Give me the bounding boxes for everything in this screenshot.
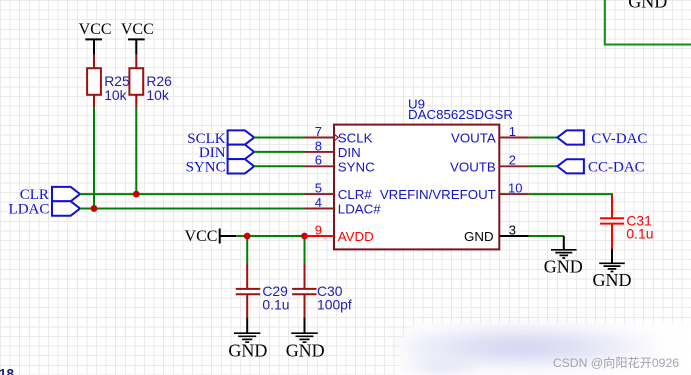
wire C30 branch	[304, 236, 306, 264]
svg-text:GND: GND	[628, 0, 667, 11]
svg-text:7: 7	[315, 124, 322, 139]
label R26 10k	[146, 73, 172, 103]
pin 9 AVDD (red)	[305, 235, 335, 237]
port DIN	[199, 145, 254, 162]
green sheet boundary (top right)	[605, 0, 691, 45]
svg-text:GND: GND	[228, 341, 267, 361]
ground GND (under C30)	[286, 317, 325, 360]
port CC-DAC	[557, 159, 644, 175]
svg-text:GND: GND	[464, 229, 494, 244]
wire VOUTA to CV-DAC	[529, 137, 558, 139]
svg-text:8: 8	[315, 138, 322, 153]
svg-text:18: 18	[0, 367, 15, 375]
svg-text:SCLK: SCLK	[338, 131, 373, 146]
label C31 0.1u	[626, 213, 653, 242]
pin 7 SCLK	[305, 137, 335, 139]
capacitor C31 (red)	[600, 195, 624, 249]
svg-text:0.1u: 0.1u	[262, 296, 289, 312]
svg-text:10k: 10k	[146, 87, 168, 103]
watermark background	[399, 323, 691, 375]
wire VOUTB to CC-DAC	[529, 165, 558, 167]
svg-text:3: 3	[509, 222, 516, 237]
capacitor C29	[236, 264, 260, 318]
svg-text:VCC: VCC	[121, 21, 154, 38]
svg-text:LDAC#: LDAC#	[338, 202, 381, 217]
junction R25/LDAC	[91, 205, 98, 212]
label C29 0.1u	[262, 283, 289, 313]
svg-text:CV-DAC: CV-DAC	[591, 131, 647, 147]
svg-text:0.1u: 0.1u	[626, 225, 653, 241]
svg-text:SYNC: SYNC	[186, 160, 226, 176]
svg-text:LDAC: LDAC	[9, 202, 50, 218]
wire SCLK	[254, 137, 304, 139]
svg-text:DIN: DIN	[338, 145, 361, 160]
svg-text:5: 5	[315, 181, 322, 196]
svg-text:100pf: 100pf	[317, 296, 352, 312]
wire pin3 to ground	[529, 235, 564, 237]
wire VCC to AVDD pin	[236, 235, 304, 237]
power port VCC (AVDD rail)	[185, 228, 237, 245]
wire CLR net	[80, 193, 305, 195]
port LDAC	[9, 201, 80, 217]
svg-text:CC-DAC: CC-DAC	[588, 160, 645, 176]
pin 4 LDAC#	[305, 208, 335, 210]
pin 8 DIN	[305, 151, 335, 153]
wire R25 to LDAC net	[93, 107, 95, 209]
port CLR	[20, 187, 80, 203]
pin 2 VOUTB	[499, 165, 529, 167]
label C30 100pf	[317, 283, 352, 313]
port CV-DAC	[557, 130, 647, 146]
op-amp U9 chip body	[334, 125, 499, 250]
svg-text:VCC: VCC	[79, 21, 112, 38]
svg-text:GND: GND	[544, 256, 583, 276]
wire C29 branch	[246, 236, 248, 264]
svg-text:6: 6	[315, 153, 322, 168]
wire SYNC	[254, 165, 304, 167]
port SYNC	[186, 159, 255, 176]
svg-text:2: 2	[509, 153, 516, 168]
pin 1 VOUTA	[499, 137, 529, 139]
pin 10 VREFIN/VREFOUT	[499, 193, 529, 195]
svg-text:1: 1	[509, 124, 516, 139]
junction AVDD/C30	[301, 233, 308, 240]
svg-text:VOUTA: VOUTA	[451, 131, 496, 146]
wire LDAC net	[80, 208, 305, 210]
svg-text:AVDD: AVDD	[338, 229, 374, 244]
port SCLK	[187, 130, 254, 146]
power port VCC (top, for R26)	[121, 21, 154, 55]
pin 5 CLR#	[305, 193, 335, 195]
svg-text:DAC8562SDGSR: DAC8562SDGSR	[408, 107, 513, 122]
power port VCC (top, for R25)	[79, 21, 112, 55]
resistor R26	[129, 55, 143, 107]
ground GND (under C29)	[228, 317, 267, 360]
svg-text:CLR#: CLR#	[338, 187, 373, 202]
wire VREFIN to C31	[529, 194, 612, 195]
svg-text:GND: GND	[593, 270, 632, 290]
svg-text:10: 10	[508, 181, 522, 196]
svg-text:VCC: VCC	[185, 228, 218, 245]
junction R26/CLR	[133, 191, 140, 198]
wire DIN	[254, 151, 304, 153]
svg-text:GND: GND	[286, 341, 325, 361]
junction VCC/C29	[244, 233, 251, 240]
svg-text:4: 4	[315, 195, 322, 210]
ground GND (under C31)	[593, 249, 632, 291]
pin 3 GND (black)	[499, 235, 529, 237]
label R25 10k	[104, 73, 130, 103]
svg-text:VREFIN/VREFOUT: VREFIN/VREFOUT	[380, 187, 496, 202]
capacitor C30	[292, 264, 316, 318]
wire R26 to CLR net	[135, 107, 137, 194]
svg-text:SYNC: SYNC	[338, 159, 375, 174]
ground GND (pin 3)	[544, 236, 583, 276]
resistor R25	[87, 55, 101, 107]
svg-text:10k: 10k	[104, 87, 126, 103]
pin 7 clock chevron	[334, 134, 338, 140]
pin 6 SYNC	[305, 165, 335, 167]
svg-text:VOUTB: VOUTB	[450, 159, 496, 174]
svg-text:9: 9	[315, 222, 322, 237]
watermark text	[420, 353, 679, 371]
